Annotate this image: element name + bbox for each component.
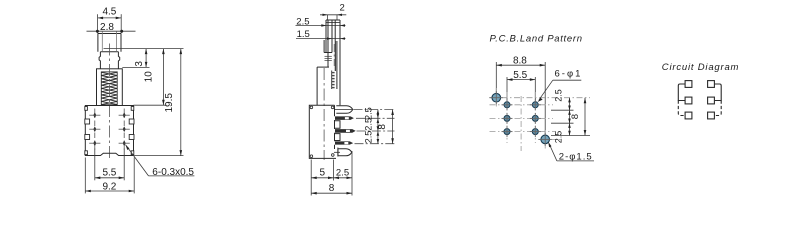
centerline (side view) xyxy=(323,68,325,160)
svg-text:8: 8 xyxy=(377,124,388,130)
svg-text:2.5: 2.5 xyxy=(296,17,309,28)
dimension 2.8 xyxy=(87,30,136,32)
terminal pin 2 (side) xyxy=(335,129,356,133)
body side notches left xyxy=(85,107,90,155)
ratchet teeth strip xyxy=(331,71,333,90)
terminal squares left pole xyxy=(685,81,692,119)
plunger shaft (front) xyxy=(98,34,121,52)
svg-text:8.8: 8.8 xyxy=(513,55,527,66)
svg-text:5.5: 5.5 xyxy=(102,168,116,179)
terminal column centerlines (dashed) xyxy=(95,109,124,150)
dimension 2 (top) xyxy=(320,14,346,16)
mounting tab top (side) xyxy=(336,106,353,114)
svg-text:2.5: 2.5 xyxy=(364,131,374,144)
dimension 4.5 xyxy=(98,14,122,33)
switch body (front) with bottom notch xyxy=(85,106,133,156)
dimension 9.2 (bottom) xyxy=(85,158,134,194)
dimension 19.5 (right) xyxy=(134,155,184,157)
svg-text:10: 10 xyxy=(144,71,155,83)
centerline of front view xyxy=(108,44,110,162)
svg-text:3: 3 xyxy=(134,61,145,67)
plunger collar with side lugs xyxy=(99,52,120,69)
hole 2-phi1.5 top-left xyxy=(492,93,501,102)
dimension 3 (right) xyxy=(104,48,184,50)
dimension 10 (right) xyxy=(134,104,167,106)
svg-text:8: 8 xyxy=(329,183,335,194)
hole crosshair ticks xyxy=(490,91,552,146)
wire right pole dashed (to NO) xyxy=(714,101,721,116)
svg-text:2: 2 xyxy=(340,3,345,14)
terminal squares right pole xyxy=(708,81,715,119)
actuator blade cross-section (thick) xyxy=(334,41,336,71)
dimension 5.5 xyxy=(507,77,535,101)
bottom dimensions 5 / 2.5 / 8 xyxy=(311,151,352,196)
svg-text:8: 8 xyxy=(570,114,581,119)
right chain dims 2.5 / 2.5 and 8 xyxy=(551,98,590,136)
svg-text:2.5: 2.5 xyxy=(554,131,564,144)
plunger shaft (side) xyxy=(324,20,340,105)
svg-text:P.C.B.Land Pattern: P.C.B.Land Pattern xyxy=(490,34,583,45)
wire right pole solid (common to NC) xyxy=(714,84,721,101)
wire left pole dashed (to NO) xyxy=(678,101,685,116)
svg-text:2.5: 2.5 xyxy=(364,118,374,131)
svg-text:6-0.3x0.5: 6-0.3x0.5 xyxy=(152,167,194,178)
svg-text:4.5: 4.5 xyxy=(102,7,116,18)
dimension 1.5 (upper left) xyxy=(296,38,346,40)
svg-text:2.8: 2.8 xyxy=(100,22,114,33)
wire left pole solid (common to NC) xyxy=(678,84,685,101)
terminal pin 3 (side) xyxy=(335,141,353,144)
dimension 8.8 xyxy=(496,62,545,135)
svg-text:1.5: 1.5 xyxy=(297,29,310,40)
svg-text:6-φ1: 6-φ1 xyxy=(555,69,583,80)
upper housing column (side) xyxy=(317,67,329,105)
svg-text:Circuit Diagram: Circuit Diagram xyxy=(662,62,739,73)
spring housing (front) xyxy=(97,69,123,106)
coil spring (front) xyxy=(101,72,117,105)
mounting tab bottom (side) xyxy=(338,149,352,156)
svg-text:19.5: 19.5 xyxy=(164,93,175,113)
svg-text:5.5: 5.5 xyxy=(513,70,527,81)
terminals (6 rivets, front) xyxy=(93,112,125,146)
svg-text:2.5: 2.5 xyxy=(336,168,349,179)
pin pitch dimensions right (2.5 x3, 8) xyxy=(354,110,395,144)
holes 6-phi1 xyxy=(504,102,538,135)
hole 2-phi1.5 bottom-right xyxy=(541,135,550,144)
svg-text:5: 5 xyxy=(320,168,326,179)
shaft serration rungs xyxy=(325,56,332,60)
svg-text:9.2: 9.2 xyxy=(102,181,116,192)
body (side) xyxy=(309,105,340,158)
terminal pin 1 (side) xyxy=(335,116,354,120)
leader 6-0.3x0.5 (terminal size callout) xyxy=(126,145,149,176)
body side notches right xyxy=(129,107,134,155)
corner marks xyxy=(310,106,334,157)
dimension 2.5 (upper left) xyxy=(296,25,346,27)
svg-text:2.5: 2.5 xyxy=(554,89,564,102)
dimension 5.5 (bottom) xyxy=(95,149,124,181)
hole grid centerlines xyxy=(489,88,590,151)
